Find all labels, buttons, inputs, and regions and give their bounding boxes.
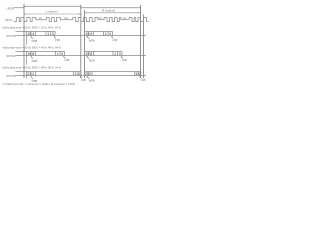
svg-text:MSB: MSB: [89, 39, 95, 43]
svg-text:R channel: R channel: [102, 8, 115, 12]
wire reference line MSB start R x=84.6: [84, 10, 86, 78]
node bit numbers row 2: [27, 52, 121, 56]
svg-text:8: 8: [32, 52, 34, 56]
svg-text:MSB: MSB: [32, 59, 38, 63]
svg-text:LSB: LSB: [112, 38, 117, 42]
svg-text:2: 2: [32, 72, 34, 76]
svg-text:Audio data word = 24 bit, BIC: Audio data word = 24 bit, BICK = 48 fs, …: [3, 66, 62, 70]
svg-text:LSB: LSB: [141, 78, 146, 82]
svg-text:15: 15: [27, 32, 31, 36]
svg-text:4: 4: [32, 32, 34, 36]
svg-text:1: 1: [74, 72, 76, 76]
node MSB marker R row 3: [86, 76, 94, 83]
svg-text:23: 23: [85, 72, 89, 76]
node LSB marker R row 2: [120, 56, 127, 62]
wire R channel span arrow: [85, 12, 141, 13]
node LSB marker R row 3: [139, 76, 146, 82]
wire top rail R row 1: [85, 30, 113, 32]
node LSB marker R row 1: [111, 36, 118, 42]
svg-text:Audio data word = 16 bit, BIC: Audio data word = 16 bit, BICK = 32 fs, …: [3, 26, 62, 30]
wire BICK break mark 2: [64, 17, 68, 19]
svg-text:LSB: LSB: [81, 78, 86, 82]
node bit numbers row 1: [27, 32, 111, 36]
node MSB marker R row 2: [86, 56, 94, 63]
svg-text:1: 1: [114, 52, 116, 56]
svg-text:LRCK: LRCK: [6, 7, 14, 11]
svg-text:15: 15: [85, 32, 89, 36]
svg-text:8: 8: [90, 52, 92, 56]
wire top rail R row 2: [85, 50, 122, 52]
wire L channel span arrow: [24, 13, 80, 14]
node MSB marker R row 1: [86, 36, 94, 43]
wire BICK break mark 4: [123, 17, 126, 19]
svg-text:SDTI/O: SDTI/O: [6, 74, 16, 78]
node LSB marker L row 2: [63, 56, 70, 62]
wire top rail L row 2: [16, 50, 65, 52]
wire BICK waveform: [14, 18, 149, 22]
wire reference line at LRCK rising edge x=140.5: [140, 5, 142, 78]
wire BICK break mark 1: [38, 17, 42, 19]
svg-text:2: 2: [89, 72, 91, 76]
wire BICK break mark 3: [99, 17, 103, 19]
svg-text:0: 0: [109, 32, 111, 36]
wire top rail L row 3: [16, 70, 82, 72]
svg-text:L channel: L channel: [45, 10, 58, 14]
svg-text:Audio data word = 20 bit, BIC: Audio data word = 20 bit, BICK = 40 fs, …: [3, 46, 62, 50]
svg-text:SDTI/O: SDTI/O: [6, 34, 16, 38]
svg-text:(*) Data Format : L channel =: (*) Data Format : L channel = HIGH, R ch…: [3, 82, 76, 86]
svg-text:4: 4: [90, 32, 92, 36]
svg-text:19: 19: [27, 52, 31, 56]
svg-text:MSB: MSB: [32, 39, 38, 43]
wire bottom rail row 1: [16, 35, 147, 37]
wire LRCK waveform: [14, 6, 141, 7]
node MSB marker L row 1: [30, 36, 37, 43]
svg-text:LSB: LSB: [55, 38, 60, 42]
wire reference line at LRCK rising edge x=24: [23, 4, 25, 78]
svg-text:0: 0: [138, 72, 140, 76]
wire reference line x=143.6: [143, 15, 145, 79]
wire cell borders row 3: [24, 71, 141, 75]
svg-text:SDTI/O: SDTI/O: [6, 54, 16, 58]
wire cell borders row 2: [24, 51, 122, 55]
wire reference line at LRCK falling edge x=80.8: [80, 5, 82, 78]
node LSB marker L row 3: [79, 76, 86, 82]
svg-text:LSB: LSB: [122, 58, 127, 62]
svg-text:23: 23: [27, 72, 31, 76]
node bit numbers row 3: [27, 72, 140, 76]
svg-text:0: 0: [61, 52, 63, 56]
wire bottom rail row 3: [16, 75, 147, 77]
wire top rail R row 3: [85, 70, 141, 72]
wire top rail L row 1: [16, 30, 56, 32]
svg-text:19: 19: [85, 52, 89, 56]
node MSB marker L row 2: [30, 56, 37, 63]
svg-text:0: 0: [78, 72, 80, 76]
svg-text:1: 1: [105, 32, 107, 36]
svg-text:1: 1: [57, 52, 59, 56]
svg-text:0: 0: [52, 32, 54, 36]
svg-text:LSB: LSB: [64, 58, 69, 62]
wire bottom rail row 2: [16, 55, 147, 57]
wire MSB cell start line extension row 3: [26, 76, 28, 79]
svg-text:MSB: MSB: [89, 79, 95, 83]
wire MSB cell start line extension row 1: [26, 36, 28, 45]
svg-text:BICK: BICK: [6, 18, 13, 22]
svg-text:1: 1: [135, 72, 137, 76]
node LSB marker L row 1: [53, 36, 60, 42]
wire cell borders row 1: [24, 31, 113, 35]
svg-text:0: 0: [119, 52, 121, 56]
wire MSB cell start line extension row 2: [26, 56, 28, 65]
svg-text:1: 1: [47, 32, 49, 36]
svg-text:MSB: MSB: [89, 59, 95, 63]
node MSB marker L row 3: [30, 76, 37, 83]
